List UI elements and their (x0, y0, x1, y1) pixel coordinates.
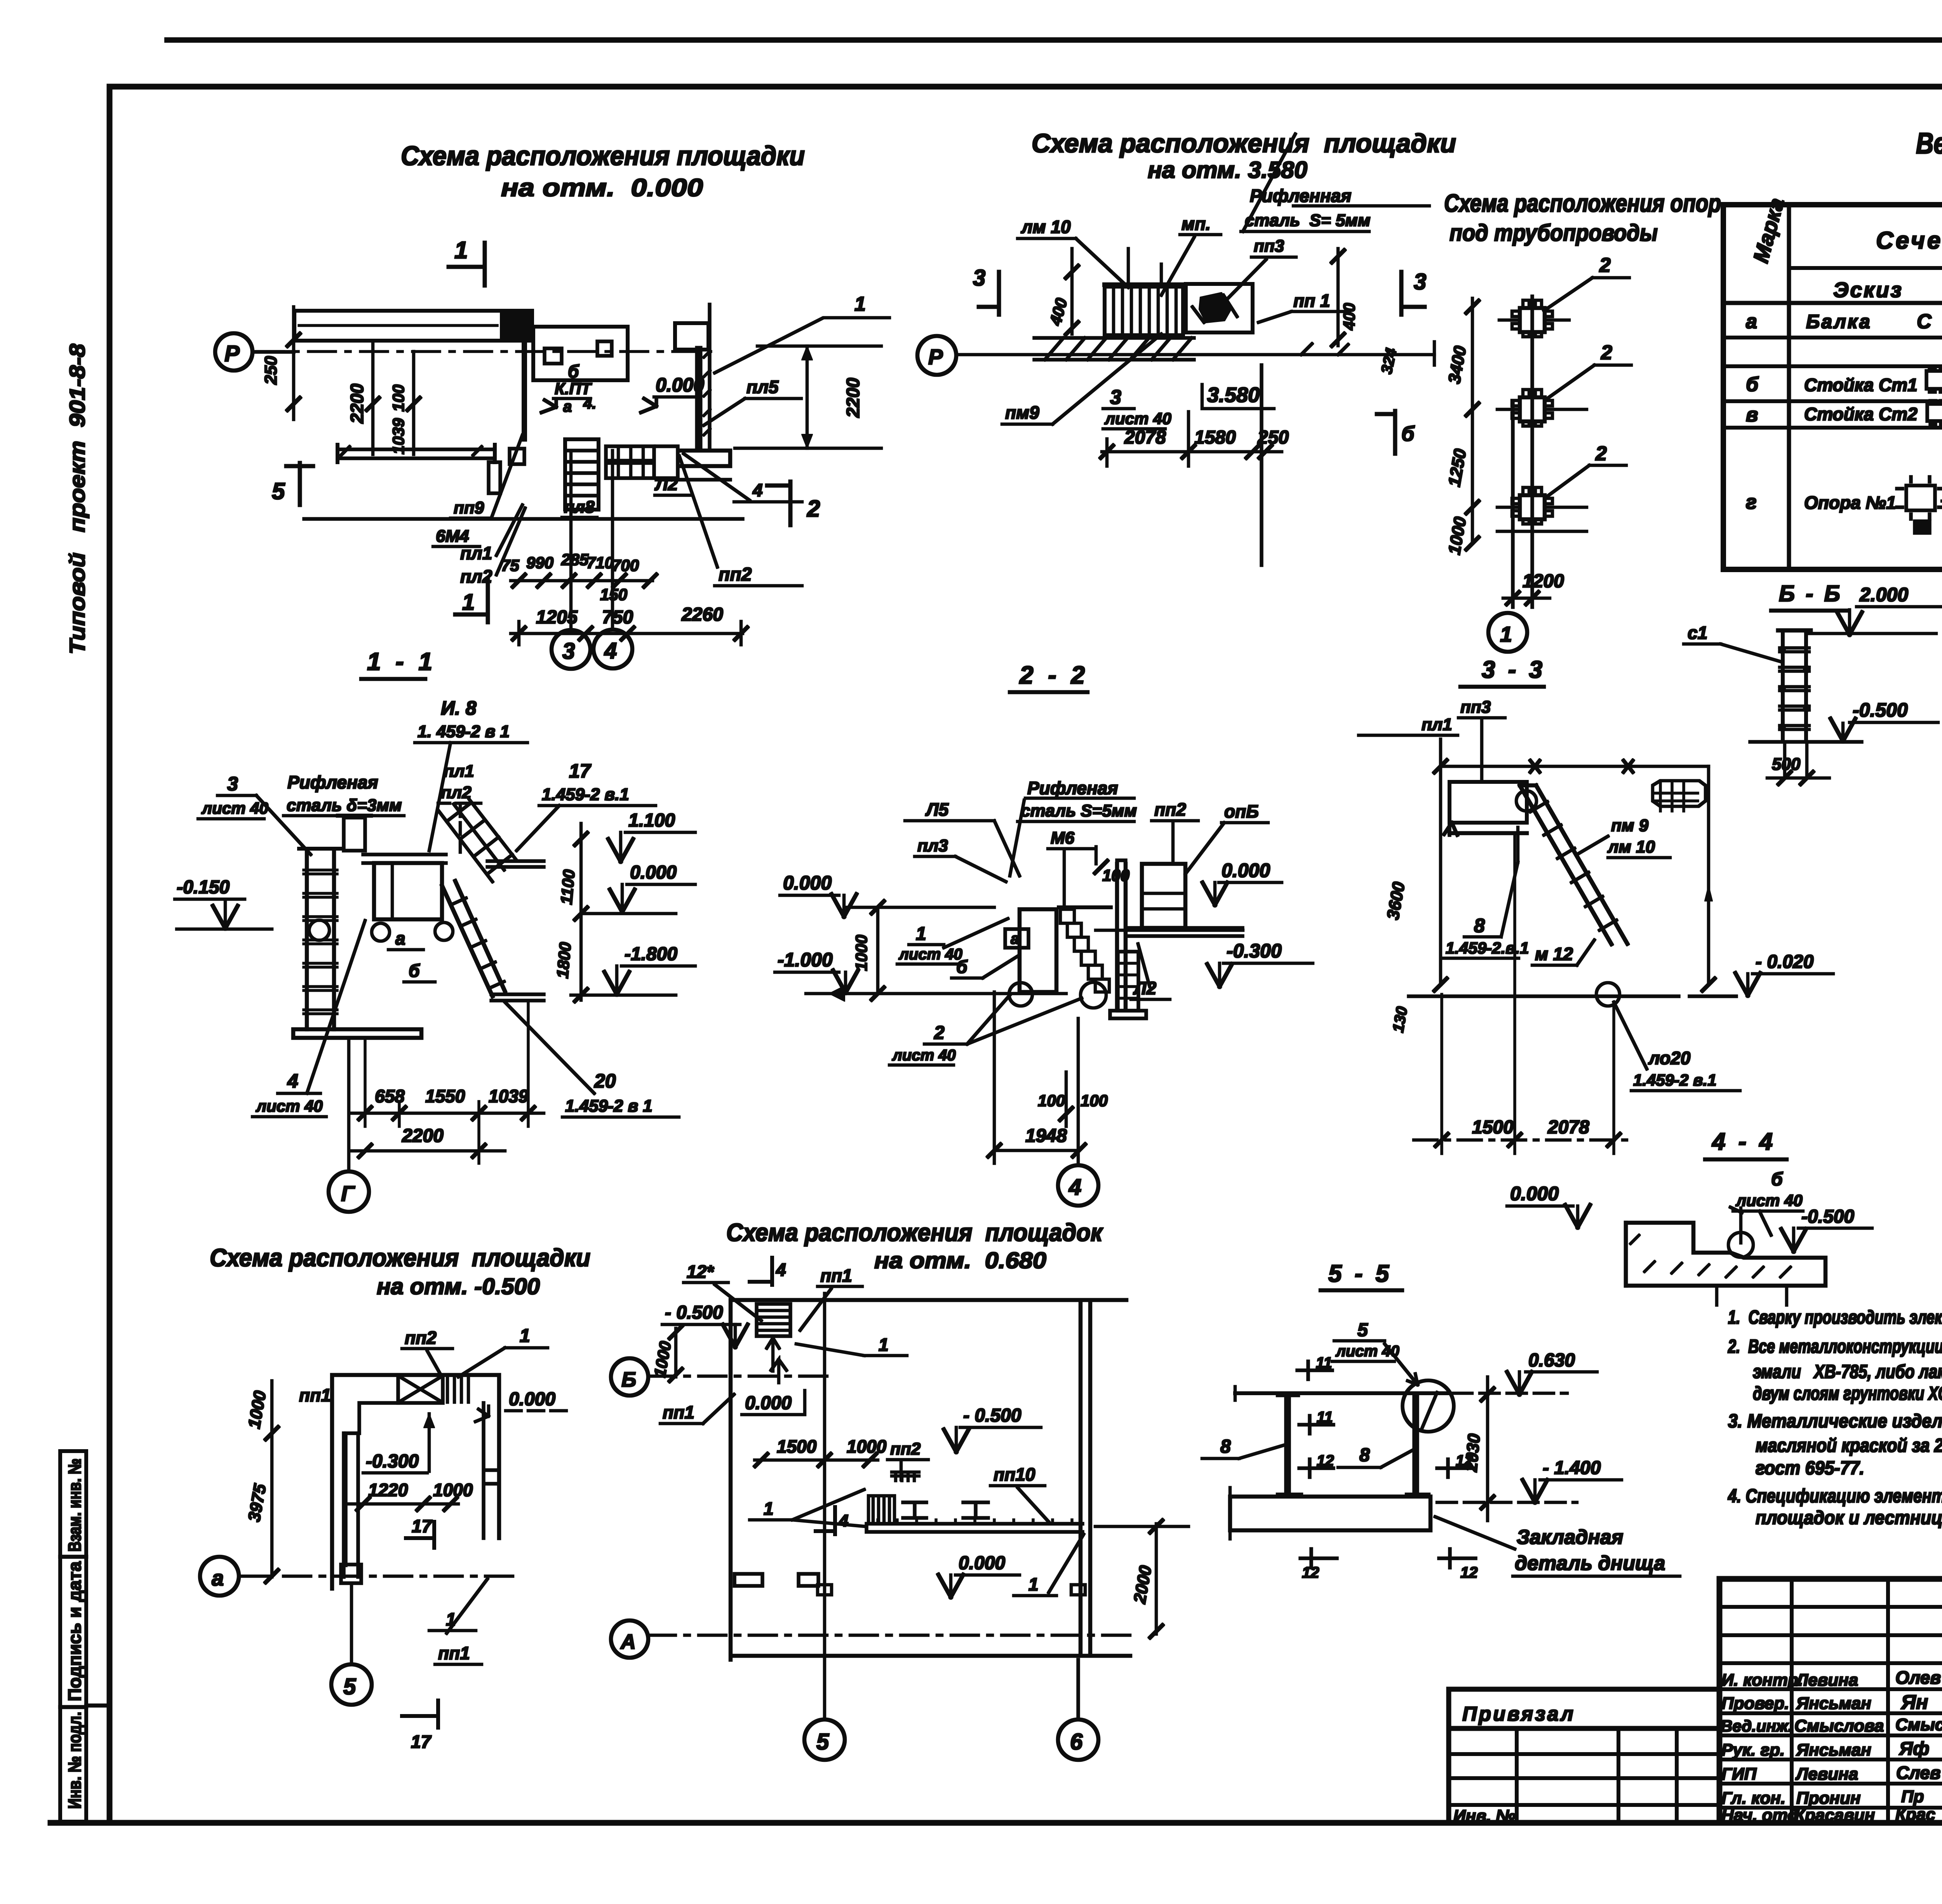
label пп1 (1258, 291, 1350, 322)
platform 1-1 (363, 855, 446, 919)
dims 100 100 bottom (1038, 1072, 1108, 1126)
svg-text:Пронин: Пронин (1796, 1789, 1860, 1808)
svg-text:5: 5 (272, 478, 285, 504)
label с1 (1684, 623, 1783, 662)
section mark 1 (top) (449, 237, 485, 285)
svg-text:2 - 2: 2 - 2 (1019, 661, 1089, 689)
main axis vertical (1531, 296, 1534, 607)
svg-text:на отм. 0.000: на отм. 0.000 (501, 174, 703, 202)
svg-text:3600: 3600 (1383, 880, 1409, 921)
svg-text:17: 17 (412, 1516, 433, 1536)
section title 4-4 (1705, 1128, 1787, 1159)
svg-text:Л2: Л2 (1133, 978, 1157, 998)
label 5 / лист 40 (5-5) (1335, 1320, 1399, 1360)
svg-text:Р: Р (928, 345, 943, 369)
svg-text:Л2: Л2 (654, 474, 678, 494)
label 17 / 1.459-2 в.1 (542, 760, 629, 804)
отметка -0.500 Б-Б (1831, 699, 1938, 741)
отметка 0.000 (3-3 bottom) (1507, 1183, 1590, 1227)
axis circle А (0.680) (611, 1620, 1130, 1658)
svg-text:1100: 1100 (557, 869, 578, 905)
dim 1000 rotated (0.680) (651, 1326, 682, 1381)
label 3 / лист 40 (1-1) (201, 773, 268, 817)
svg-text:Смыс: Смыс (1895, 1715, 1942, 1734)
svg-text:-1.000: -1.000 (778, 949, 833, 971)
svg-text:Янсьман: Янсьман (1796, 1694, 1871, 1713)
svg-text:4: 4 (287, 1070, 298, 1092)
svg-text:пл1: пл1 (444, 762, 474, 781)
level lines 2-2 (806, 907, 1243, 994)
labels а б (1-1) (395, 928, 420, 981)
left dim vertical 3-3 (1383, 739, 1447, 1034)
svg-text:324: 324 (1378, 346, 1400, 375)
svg-text:Опора №1: Опора №1 (1804, 493, 1896, 513)
lower column 2-2 (1110, 952, 1146, 1018)
отметка 0.000 right 2-2 (1202, 860, 1282, 905)
platform beam 0.680 (867, 1496, 1082, 1532)
svg-text:б: б (956, 957, 968, 977)
label пп2 bottom right (679, 456, 802, 586)
label пл5 (704, 377, 801, 425)
dim 2000 right (0.680) (1095, 1520, 1189, 1638)
label б 2-2 (952, 955, 1019, 978)
svg-text:пп1: пп1 (820, 1265, 852, 1286)
labels 1 / пп1 bottom (438, 1609, 470, 1663)
svg-text:Янсьман: Янсьман (1796, 1740, 1871, 1760)
dims 1500 1000 (0.680) (755, 1436, 887, 1466)
room 0.680 (731, 1300, 1130, 1660)
svg-text:4: 4 (839, 1511, 848, 1530)
title схема 0.680 (726, 1218, 1103, 1273)
title опоры (1444, 189, 1721, 246)
ground line Б-Б (1750, 740, 1862, 743)
svg-text:8: 8 (1474, 915, 1485, 936)
svg-text:б: б (568, 361, 579, 381)
building room (plan) (524, 313, 628, 439)
svg-text:0.000: 0.000 (783, 872, 832, 894)
label Б-Б (1771, 581, 1847, 611)
svg-text:Стойка Ст1: Стойка Ст1 (1804, 375, 1918, 395)
svg-text:1. Сварку производить электро: 1. Сварку производить электродами Э 42 п… (1728, 1307, 1942, 1328)
svg-text:пп10: пп10 (994, 1464, 1035, 1485)
weld circles 1-1 (309, 920, 453, 941)
svg-text:2030: 2030 (1462, 1433, 1484, 1473)
svg-text:3: 3 (227, 773, 238, 795)
svg-text:Схема расположения площадки: Схема расположения площадки (1032, 129, 1456, 158)
svg-text:пм9: пм9 (1005, 402, 1039, 423)
leader 1 (0.680) (796, 1335, 907, 1356)
svg-text:2200: 2200 (843, 378, 863, 418)
svg-text:Закладная: Закладная (1517, 1526, 1623, 1549)
hatched strip below (1034, 338, 1194, 360)
leader 2 (опора 2) (1545, 341, 1631, 400)
svg-text:на отм. -0.500: на отм. -0.500 (377, 1274, 540, 1299)
svg-text:1500: 1500 (1472, 1117, 1514, 1138)
svg-text:700: 700 (612, 556, 639, 574)
svg-text:1000: 1000 (245, 1389, 270, 1430)
отметка 0.630 (1453, 1350, 1597, 1394)
svg-text:3 - 3: 3 - 3 (1482, 656, 1545, 683)
section title 1-1 (361, 647, 436, 679)
svg-text:1000: 1000 (651, 1340, 675, 1378)
label И.8 / 1.459-2 в1 (418, 697, 510, 741)
отметка -0.500 (0.680 top) (662, 1302, 748, 1347)
svg-text:4: 4 (752, 480, 763, 500)
section mark 1 (bottom) (455, 580, 488, 622)
axis circle 6 (0.680) (1058, 1585, 1098, 1760)
svg-text:1550: 1550 (425, 1086, 465, 1106)
svg-text:-0.150: -0.150 (177, 877, 230, 898)
lower right beam (656, 451, 730, 480)
svg-text:3: 3 (973, 265, 985, 291)
опора symbol 2 (1497, 390, 1587, 426)
dim 400 rotated right (1332, 249, 1358, 346)
svg-text:Подпись и дата: Подпись и дата (64, 1561, 85, 1701)
svg-text:2200: 2200 (347, 383, 367, 424)
svg-text:11: 11 (1316, 1354, 1332, 1371)
svg-text:пп1: пп1 (438, 1643, 470, 1663)
svg-text:750: 750 (602, 607, 633, 628)
label пл8 mid (562, 498, 597, 517)
axis circle 5 (-0.500) (331, 1583, 372, 1705)
отметка 0.000 (план) (641, 374, 704, 412)
svg-text:12: 12 (1460, 1564, 1478, 1581)
labels а. 4. (563, 395, 596, 415)
svg-text:5: 5 (816, 1729, 829, 1754)
svg-text:площадок и лестниц см. лист 40: площадок и лестниц см. лист 40 (1756, 1507, 1942, 1528)
svg-text:пл1: пл1 (1422, 715, 1452, 734)
svg-text:Инв. №: Инв. № (1453, 1807, 1516, 1826)
section mark 2 (right) (767, 482, 820, 525)
svg-text:1800: 1800 (553, 942, 574, 979)
top dim line 3-3 (1441, 761, 1709, 772)
svg-text:двум слоям грунтовки ХС-069: двум слоям грунтовки ХС-069 (1753, 1383, 1942, 1404)
svg-text:5 - 5: 5 - 5 (1328, 1260, 1392, 1287)
svg-text:И. контр.: И. контр. (1721, 1671, 1803, 1690)
svg-text:3: 3 (1414, 269, 1426, 294)
svg-text:пп3: пп3 (1460, 698, 1491, 717)
svg-text:- 0.500: - 0.500 (963, 1405, 1021, 1426)
svg-text:пл5: пл5 (747, 377, 779, 397)
label м12 (1532, 940, 1594, 965)
labels пм9 лм10 (1607, 816, 1655, 856)
svg-text:1: 1 (1028, 1574, 1039, 1594)
svg-text:на отм. 3.580: на отм. 3.580 (1148, 157, 1307, 183)
svg-text:лист 40: лист 40 (256, 1097, 323, 1115)
узел опоры №1 (support symbol in table) (1897, 477, 1942, 533)
svg-text:лист 40: лист 40 (1104, 409, 1171, 428)
svg-text:пл2: пл2 (441, 783, 472, 802)
svg-text:1: 1 (879, 1335, 889, 1355)
steps 4-4 (1626, 1207, 1825, 1286)
title схема 0.000 (401, 141, 805, 202)
svg-text:на отм. 0.680: на отм. 0.680 (874, 1248, 1046, 1273)
svg-text:Схема расположения площадок: Схема расположения площадок (726, 1218, 1103, 1246)
svg-text:100: 100 (389, 385, 407, 412)
svg-text:5: 5 (1357, 1320, 1368, 1340)
svg-text:12*: 12* (687, 1262, 714, 1282)
svg-text:17: 17 (411, 1732, 432, 1752)
svg-text:ло20: ло20 (1648, 1048, 1691, 1068)
label 20 / 1.459-2 в 1 (565, 1070, 653, 1116)
svg-text:1: 1 (916, 924, 926, 944)
svg-text:лист 40: лист 40 (201, 799, 268, 817)
svg-text:пп2: пп2 (890, 1439, 921, 1458)
leader 1 top right (715, 293, 889, 373)
svg-text:17: 17 (569, 760, 592, 782)
label пм9 (1002, 334, 1161, 424)
section mark 17 mid (406, 1516, 434, 1548)
svg-text:Олев: Олев (1895, 1667, 1941, 1688)
svg-text:пп2: пп2 (719, 564, 752, 585)
floor right 2-2 (1126, 928, 1242, 936)
колонна Б-Б (lattice) (1778, 630, 1936, 740)
dim 1948 (988, 992, 1085, 1163)
section title 5-5 (1321, 1260, 1402, 1290)
small ticks right (1301, 342, 1434, 365)
svg-text:И. 8: И. 8 (441, 697, 477, 719)
dim 2200 right (735, 346, 881, 448)
section mark 3 left (973, 265, 999, 315)
svg-text:75: 75 (501, 556, 519, 574)
section mark 4 (0.680 top) (750, 1258, 786, 1285)
svg-text:0.000: 0.000 (630, 862, 677, 883)
svg-text:1039: 1039 (489, 1086, 529, 1106)
отметка -0.020 (1735, 952, 1833, 996)
svg-text:3.580: 3.580 (1207, 383, 1260, 407)
stairs 1-1 (442, 881, 505, 996)
room (-0.500) (332, 1375, 499, 1589)
label закладная деталь днища (1515, 1526, 1665, 1575)
axis circle 4 (593, 630, 632, 668)
brick symbol (1653, 781, 1705, 811)
label пп2 2-2 (1152, 799, 1198, 860)
svg-text:1: 1 (854, 293, 866, 315)
svg-text:400: 400 (1046, 296, 1071, 327)
main beam (plan) (294, 310, 532, 341)
svg-text:400: 400 (1340, 303, 1358, 331)
svg-text:Левина: Левина (1795, 1765, 1858, 1784)
axis line 3.580 (956, 353, 1434, 356)
dim marks 11 12 (5-5) (1297, 1354, 1478, 1581)
axis verticals to circles 3,4 (571, 451, 613, 630)
label пп1 lower left (660, 1394, 734, 1424)
dim 250 rotated (261, 307, 300, 419)
svg-text:пп3: пп3 (1254, 237, 1284, 256)
ground line 3-3 (1409, 995, 1736, 998)
svg-text:с1: с1 (1688, 623, 1707, 643)
svg-text:0.000: 0.000 (745, 1393, 792, 1413)
leader 4 right (684, 454, 802, 502)
title block (1719, 1579, 1942, 1859)
right vertical 3-3 (1702, 766, 1715, 991)
узел стойки Ст1 (small channel symbol) (1926, 368, 1942, 392)
отметка 1.100 (608, 810, 695, 861)
label пп10 (990, 1464, 1049, 1522)
svg-text:3975: 3975 (245, 1482, 270, 1523)
column top pipe (338, 816, 371, 851)
svg-text:Гл. кон.: Гл. кон. (1721, 1789, 1785, 1808)
leader 2 (опора 1) (1544, 254, 1629, 311)
svg-text:1.459-2.в.1: 1.459-2.в.1 (1446, 939, 1529, 957)
отметка -1.400 (1437, 1458, 1622, 1502)
labels пл1 пл2 (460, 505, 525, 587)
railing grid 1-1 (438, 799, 517, 882)
section mark 5 (left) (272, 463, 313, 505)
svg-text:масляной краской за 2 раза по: масляной краской за 2 раза по грунтовке (1756, 1435, 1942, 1456)
svg-text:пл3: пл3 (917, 836, 948, 855)
label пл3 2-2 (915, 836, 1006, 882)
svg-text:20: 20 (594, 1070, 616, 1092)
svg-text:Р: Р (224, 341, 240, 366)
dim 2030 (5-5) (1462, 1377, 1494, 1521)
vertical dim right 1-1 (553, 823, 587, 1001)
svg-text:-0.300: -0.300 (366, 1451, 419, 1472)
stairs 2-2 (1059, 907, 1111, 992)
left stamp strip (60, 1451, 110, 1822)
label М6 (1048, 828, 1095, 905)
отметка 0.000 boxed (742, 1359, 805, 1415)
svg-text:под трубопроводы: под трубопроводы (1450, 220, 1658, 246)
svg-text:1220: 1220 (368, 1480, 408, 1500)
svg-text:опБ: опБ (1224, 801, 1259, 821)
svg-text:б: б (1746, 373, 1759, 396)
upper right room 2-2 (1142, 864, 1185, 928)
section mark 3 right (1401, 269, 1426, 315)
svg-text:0.000: 0.000 (1510, 1183, 1559, 1204)
svg-text:2000: 2000 (1130, 1564, 1155, 1605)
title схема -0.500 (210, 1244, 590, 1299)
leaders 8 (5-5) (1202, 1436, 1414, 1467)
svg-text:-1.800: -1.800 (625, 944, 677, 964)
sheet top edge line (167, 38, 1942, 42)
отметка -1.800 (571, 944, 695, 995)
svg-text:пп2: пп2 (1154, 799, 1186, 820)
svg-text:1: 1 (764, 1498, 774, 1519)
svg-text:100: 100 (1081, 1091, 1108, 1110)
svg-text:2.000: 2.000 (1859, 584, 1908, 606)
svg-text:м 12: м 12 (1535, 944, 1573, 964)
dim row 1 (501, 550, 656, 604)
svg-text:а: а (1746, 310, 1757, 333)
svg-text:4: 4 (604, 638, 617, 663)
svg-text:990: 990 (526, 553, 553, 572)
label 8 / 1.459-2.в.1 (1446, 915, 1529, 957)
label пп2 (0.680) (887, 1439, 928, 1481)
отметка -0.500 (0.680 mid) (944, 1405, 1041, 1452)
axis circle 1 (опоры) (1488, 613, 1527, 652)
bottom tick 4-4 (1717, 1286, 1787, 1305)
axis circle 5 (0.680) (804, 1293, 845, 1760)
weld circles 2-2 (1009, 982, 1106, 1008)
label рифленая сталь 2-2 (1021, 778, 1137, 820)
leader 1 (-0.500) (458, 1326, 548, 1377)
section title 3-3 (1460, 656, 1545, 687)
title схема 3.580 (1032, 129, 1456, 183)
bottom dims 1-1 row 2 (352, 1126, 505, 1157)
table: ведомость элементов (1723, 127, 1942, 569)
platform grid right of stair (606, 446, 678, 478)
svg-text:-0.500: -0.500 (1801, 1206, 1854, 1227)
svg-text:пп 1: пп 1 (1293, 291, 1330, 311)
vertical dim lines inside plan (347, 342, 420, 454)
svg-text:3400: 3400 (1445, 344, 1470, 385)
svg-text:пп1: пп1 (299, 1385, 331, 1405)
leader 2 (опора 3) (1545, 442, 1626, 498)
svg-text:12: 12 (1302, 1564, 1319, 1581)
label пп2 (-0.500) (402, 1328, 452, 1375)
svg-text:4 - 4: 4 - 4 (1711, 1128, 1776, 1155)
svg-text:2. Все металлоконструкции в о: 2. Все металлоконструкции в осях 1÷5 окр… (1728, 1336, 1942, 1357)
small marks above grating (1128, 249, 1161, 285)
svg-text:лм 10: лм 10 (1607, 837, 1655, 856)
svg-text:гост 695-77.: гост 695-77. (1756, 1458, 1864, 1479)
svg-text:500: 500 (1772, 755, 1801, 774)
svg-text:1250: 1250 (1445, 447, 1470, 488)
отметка 2.000 (1837, 584, 1942, 635)
svg-text:2: 2 (934, 1023, 945, 1043)
axis circle а (200, 1557, 272, 1596)
svg-text:5: 5 (343, 1674, 356, 1699)
vertical line down from 3.580 plan (1260, 365, 1263, 565)
label ло20 (1633, 1048, 1717, 1089)
bottom dim 3-3 (1414, 835, 1635, 1154)
svg-text:1000: 1000 (433, 1480, 473, 1500)
отметка 0.000 left 2-2 (780, 872, 856, 917)
svg-text:8: 8 (1220, 1436, 1231, 1457)
svg-text:Пр: Пр (1901, 1787, 1924, 1806)
label пл1 пл2 (1-1) (441, 762, 474, 802)
dim 400 rotated left (1046, 249, 1078, 334)
label мп (1161, 214, 1221, 295)
svg-text:12: 12 (1317, 1452, 1334, 1469)
svg-text:2: 2 (1601, 341, 1612, 364)
svg-text:Б: Б (621, 1368, 636, 1391)
svg-text:1039: 1039 (389, 418, 407, 454)
rails right 1-1 (487, 861, 544, 1001)
svg-text:1.100: 1.100 (628, 810, 675, 831)
svg-text:а: а (1011, 930, 1019, 947)
svg-text:г: г (1746, 491, 1757, 513)
svg-text:1948: 1948 (1025, 1126, 1067, 1146)
svg-text:Инв. № подл.: Инв. № подл. (64, 1712, 85, 1809)
stair 3-3 (1516, 785, 1627, 944)
label Л2 (2-2) (1131, 944, 1170, 999)
опора symbol 1 (1499, 300, 1569, 337)
label 4 / лист 40 (1-1) (256, 1070, 323, 1115)
svg-text:Эскиз: Эскиз (1833, 278, 1903, 302)
label пп3 (1216, 237, 1296, 311)
svg-text:1 - 1: 1 - 1 (367, 647, 436, 675)
label 1 / лист 40 (898, 924, 962, 963)
slab 5-5 (1230, 1488, 1430, 1539)
svg-text:мп.: мп. (1182, 214, 1211, 234)
svg-text:1.459-2 в.1: 1.459-2 в.1 (1633, 1071, 1717, 1089)
dim 1220 1000 (346, 1480, 473, 1510)
привязал block (1449, 1689, 1719, 1826)
svg-text:Крас: Крас (1895, 1805, 1935, 1824)
svg-text:сталь δ=3мм: сталь δ=3мм (287, 796, 402, 815)
column (-0.500) (341, 1433, 361, 1583)
elevation arrow left (541, 399, 556, 412)
dim row 2078 1580 250 (1101, 412, 1289, 466)
svg-text:пм 9: пм 9 (1611, 816, 1649, 835)
svg-text:2260: 2260 (681, 604, 723, 625)
svg-text:б: б (1401, 422, 1415, 446)
svg-text:пл1: пл1 (460, 543, 492, 563)
label Л5 (905, 799, 1020, 876)
right wall hatched strip (699, 350, 710, 448)
